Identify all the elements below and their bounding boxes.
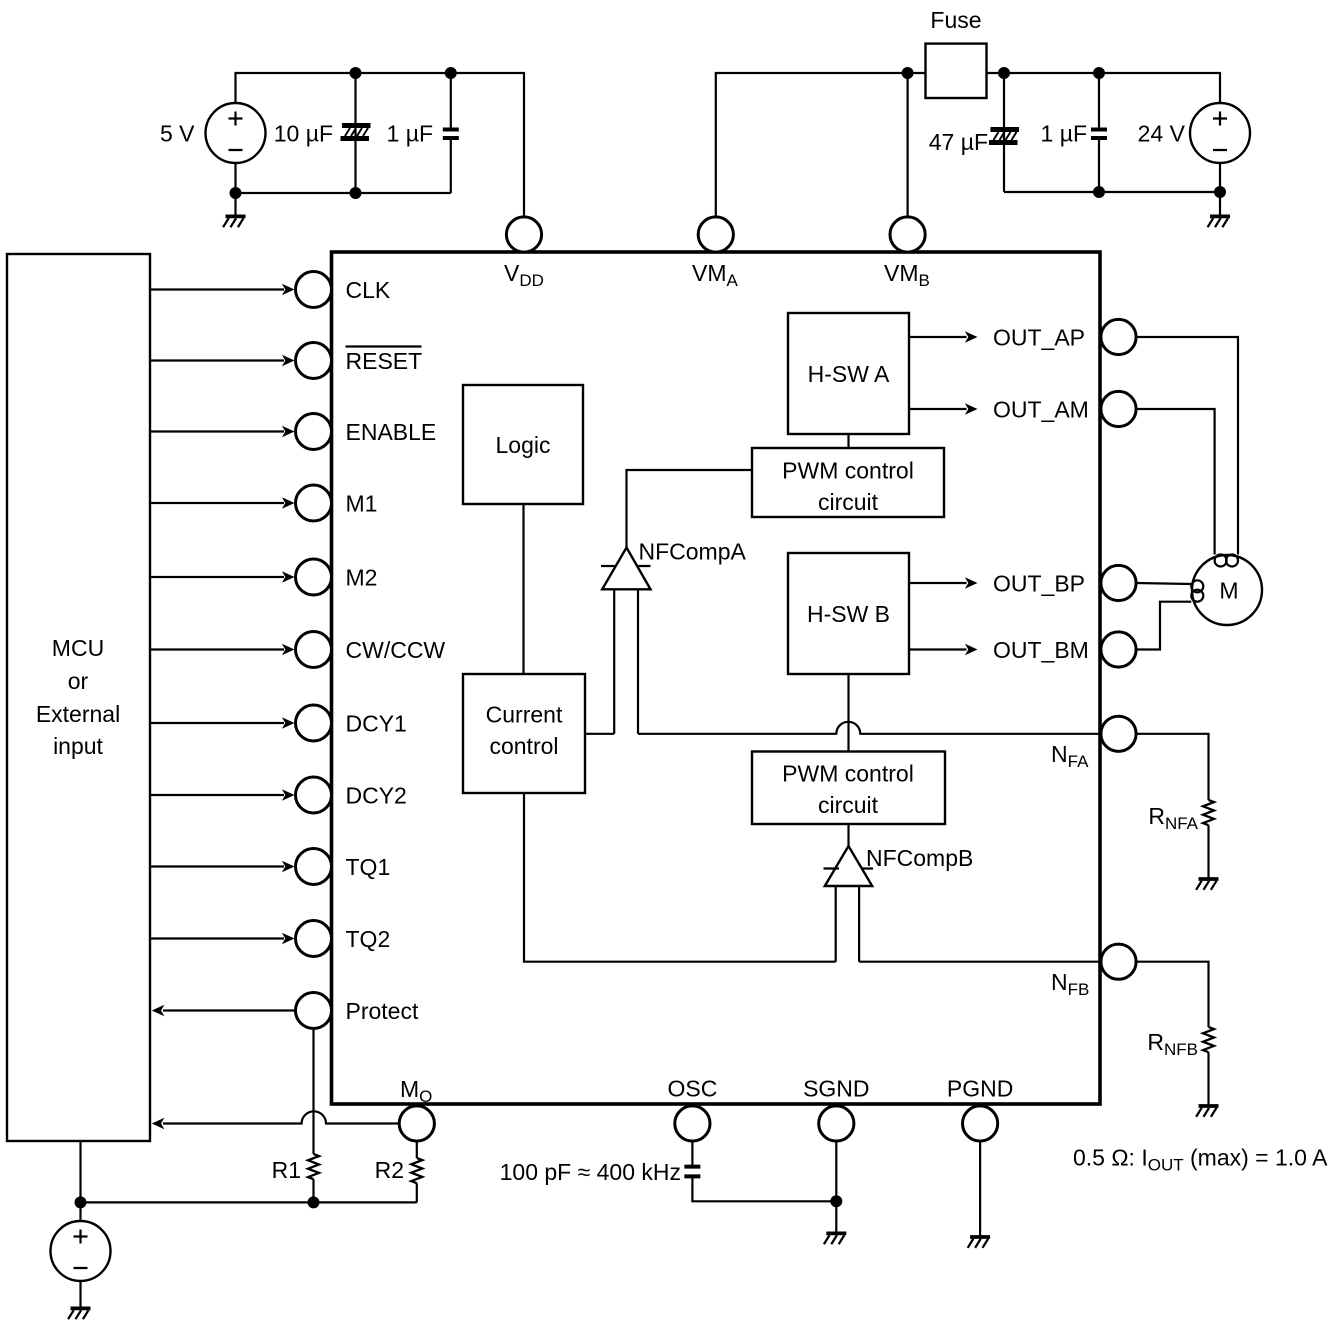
inductor coil A (motor top) <box>1215 555 1227 567</box>
wire 24V bottom rail <box>1004 163 1220 216</box>
wire Logic to Current control <box>522 504 524 674</box>
ground below RNFA <box>1196 879 1218 890</box>
wire source to ground <box>79 1281 81 1308</box>
block Current control <box>463 674 585 793</box>
wire NFCompB input from current control <box>524 793 836 962</box>
block H-SW A <box>788 313 909 434</box>
wire H-SW A to PWM control A <box>847 434 849 448</box>
wire PWM control B to NFCompB <box>847 824 849 846</box>
svg-text:circuit: circuit <box>818 792 879 818</box>
node junction source bottom <box>230 187 242 199</box>
ground below PGND <box>968 1237 990 1248</box>
pin VMA <box>698 217 733 252</box>
svg-text:SGND: SGND <box>803 1076 869 1102</box>
wire VMA up to fuse rail <box>716 73 926 217</box>
node junction 24V source bottom <box>1214 186 1226 198</box>
pin TQ2 <box>296 921 332 957</box>
node junction bottom of C1 <box>350 187 362 199</box>
svg-text:NFCompA: NFCompA <box>639 539 747 565</box>
pin MO <box>399 1106 434 1141</box>
wire input arrow to RESET <box>151 359 284 361</box>
wire C5 to SGND net <box>692 1176 836 1201</box>
pin M1 <box>296 485 332 521</box>
svg-text:DCY2: DCY2 <box>346 783 407 809</box>
svg-text:Logic: Logic <box>496 432 551 458</box>
pin OSC <box>675 1106 710 1141</box>
pin Protect <box>296 993 332 1029</box>
wire SGND to ground <box>835 1141 837 1233</box>
wire OUT_AP to motor coil A <box>1136 337 1238 555</box>
pin OUT_BM <box>1101 632 1136 667</box>
svg-text:OUT_BM: OUT_BM <box>993 637 1089 663</box>
svg-text:input: input <box>53 733 103 759</box>
svg-text:RESET: RESET <box>346 348 423 374</box>
wire PGND to ground <box>979 1141 981 1237</box>
svg-text:1 µF: 1 µF <box>387 121 433 147</box>
svg-text:24 V: 24 V <box>1138 121 1186 147</box>
wire input arrow to DCY1 <box>151 722 284 724</box>
svg-text:ENABLE: ENABLE <box>346 419 437 445</box>
svg-text:10 µF: 10 µF <box>274 121 333 147</box>
ground below 24V source <box>1208 216 1230 227</box>
node junction top of C4 <box>1093 67 1105 79</box>
svg-text:1 µF: 1 µF <box>1041 121 1087 147</box>
svg-text:circuit: circuit <box>818 489 879 515</box>
wire H-SW B to PWM control B <box>847 674 849 752</box>
node junction top of C1 <box>350 67 362 79</box>
wire OUT_AM to motor coil A <box>1136 409 1215 555</box>
wire output arrow OUT_BM <box>909 648 967 650</box>
svg-text:M2: M2 <box>346 565 378 591</box>
pin VMB <box>890 217 925 252</box>
resistor R2 <box>411 1158 422 1183</box>
node junction top of C3 <box>998 67 1010 79</box>
svg-text:R1: R1 <box>272 1157 301 1183</box>
wire R1 to bottom rail <box>312 1179 314 1202</box>
svg-text:CLK: CLK <box>346 277 391 303</box>
node junction top of C2 <box>445 67 457 79</box>
svg-text:M: M <box>1219 578 1238 604</box>
svg-text:0.5 Ω: IOUT (max) = 1.0 A: 0.5 Ω: IOUT (max) = 1.0 A <box>1073 1145 1328 1175</box>
pin TQ1 <box>296 849 332 885</box>
wire bottom rail <box>81 1141 417 1221</box>
capacitor C3 47 uF (polarized) <box>1003 73 1005 192</box>
capacitor C5 100 pF <box>684 1167 700 1177</box>
wire RNFB to ground <box>1207 1052 1209 1106</box>
node junction SGND <box>830 1195 842 1207</box>
block Logic <box>463 385 583 504</box>
svg-text:Current: Current <box>486 702 563 728</box>
wire R2 to bottom rail <box>416 1183 418 1202</box>
svg-text:47 µF: 47 µF <box>929 129 988 155</box>
pin OUT_AM <box>1101 391 1136 426</box>
pin CLK <box>296 272 332 308</box>
pin DCY1 <box>296 705 332 741</box>
wire 5V top rail to VDD <box>236 73 525 217</box>
svg-text:R2: R2 <box>375 1157 404 1183</box>
svg-text:External: External <box>36 701 120 727</box>
pin NFA <box>1101 716 1136 751</box>
block H-SW B <box>788 553 909 674</box>
svg-text:TQ2: TQ2 <box>346 926 391 952</box>
wire RNFA to ground <box>1207 825 1209 879</box>
MCU / External input box <box>7 254 150 1141</box>
pin PGND <box>963 1106 998 1141</box>
ground below SGND <box>824 1233 846 1244</box>
voltage source 5 V <box>206 103 266 163</box>
svg-text:PGND: PGND <box>947 1076 1013 1102</box>
svg-text:5 V: 5 V <box>160 121 195 147</box>
wire OUT_BP to motor coil B <box>1136 583 1191 584</box>
pin VDD <box>506 217 541 252</box>
pin ENABLE <box>296 414 332 450</box>
svg-text:TQ1: TQ1 <box>346 854 391 880</box>
IC U1 outline <box>332 252 1101 1104</box>
wire MO to R2 <box>416 1141 418 1158</box>
capacitor C1 10 uF (polarized) <box>354 73 356 193</box>
wire NFA to RNFA <box>1136 734 1208 800</box>
wire Protect to R1 <box>312 1029 314 1155</box>
block PWM control circuit A <box>752 448 944 517</box>
wire output arrow OUT_AM <box>909 408 967 410</box>
svg-text:H-SW A: H-SW A <box>808 361 890 387</box>
pin SGND <box>819 1106 854 1141</box>
ground below MCU supply <box>68 1308 90 1319</box>
wire output arrow OUT_BP <box>909 582 967 584</box>
pin OUT_BP <box>1101 565 1136 600</box>
wire Protect output arrow <box>163 1009 296 1011</box>
wire input arrow to CLK <box>151 288 284 290</box>
svg-text:DCY1: DCY1 <box>346 711 407 737</box>
node junction bottom of C4 <box>1093 186 1105 198</box>
voltage source (MCU supply) <box>51 1221 111 1281</box>
capacitor C4 1 uF <box>1098 73 1100 192</box>
svg-text:Protect: Protect <box>346 998 419 1024</box>
pin NFB <box>1101 944 1136 979</box>
svg-text:100 pF ≈ 400 kHz: 100 pF ≈ 400 kHz <box>500 1159 681 1185</box>
pin DCY2 <box>296 777 332 813</box>
svg-text:PWM control: PWM control <box>782 761 914 787</box>
capacitor C2 1 uF <box>450 73 452 193</box>
node junction R1 bottom <box>308 1196 320 1208</box>
resistor RNFA <box>1203 800 1214 825</box>
op-amp NFCompA <box>602 548 650 590</box>
svg-text:OUT_BP: OUT_BP <box>993 571 1085 597</box>
svg-text:Fuse: Fuse <box>930 7 981 33</box>
wire VMB branch <box>906 73 908 217</box>
svg-text:M1: M1 <box>346 491 378 517</box>
svg-text:MCU: MCU <box>52 635 104 661</box>
voltage source 24 V <box>1190 103 1250 163</box>
wire input arrow to M1 <box>151 502 284 504</box>
svg-text:or: or <box>68 668 89 694</box>
wire MO to MCU (arrow) <box>163 1111 399 1123</box>
wire NFCompA input from current control <box>585 589 614 734</box>
wire fuse to 24V source <box>987 73 1221 103</box>
wire NFCompB input from NFB <box>859 886 1101 962</box>
svg-text:OUT_AM: OUT_AM <box>993 397 1089 423</box>
svg-text:H-SW B: H-SW B <box>807 601 890 627</box>
svg-text:OUT_AP: OUT_AP <box>993 325 1085 351</box>
wire input arrow to DCY2 <box>151 794 284 796</box>
wire input arrow to ENABLE <box>151 430 284 432</box>
pin M2 <box>296 559 332 595</box>
resistor RNFB <box>1203 1027 1214 1052</box>
svg-text:CW/CCW: CW/CCW <box>346 637 446 663</box>
wire PWM control A to NFCompA <box>627 470 753 548</box>
svg-text:NFCompB: NFCompB <box>866 845 973 871</box>
wire 5V bottom rail <box>236 163 451 216</box>
ground below 5V source <box>223 216 245 227</box>
svg-text:PWM control: PWM control <box>782 458 914 484</box>
pin OUT_AP <box>1101 319 1136 354</box>
node junction VMB branch <box>902 67 914 79</box>
pin RESET <box>296 343 332 379</box>
resistor R1 <box>308 1154 319 1179</box>
wire output arrow OUT_AP <box>909 336 967 338</box>
svg-text:control: control <box>489 733 558 759</box>
wire input arrow to TQ1 <box>151 865 284 867</box>
wire NFB to RNFB <box>1136 962 1208 1027</box>
wire OUT_BM to motor coil B <box>1136 602 1191 650</box>
inductor coil B (motor left) <box>1191 580 1203 592</box>
fuse F1 <box>926 44 987 98</box>
pin CW/CCW <box>296 632 332 668</box>
block PWM control circuit B <box>752 752 945 825</box>
motor M <box>1192 555 1262 625</box>
wire input arrow to M2 <box>151 576 284 578</box>
wire input arrow to TQ2 <box>151 937 284 939</box>
wire input arrow to CW/CCW <box>151 648 284 650</box>
svg-text:OSC: OSC <box>667 1076 717 1102</box>
wire NFCompA input from NFA <box>638 589 1101 734</box>
wire OSC to C5 <box>691 1141 693 1166</box>
ground below RNFB <box>1196 1106 1218 1117</box>
node junction MCU bottom <box>75 1196 87 1208</box>
op-amp NFCompB <box>825 846 872 886</box>
overline of RESET label <box>346 345 422 347</box>
